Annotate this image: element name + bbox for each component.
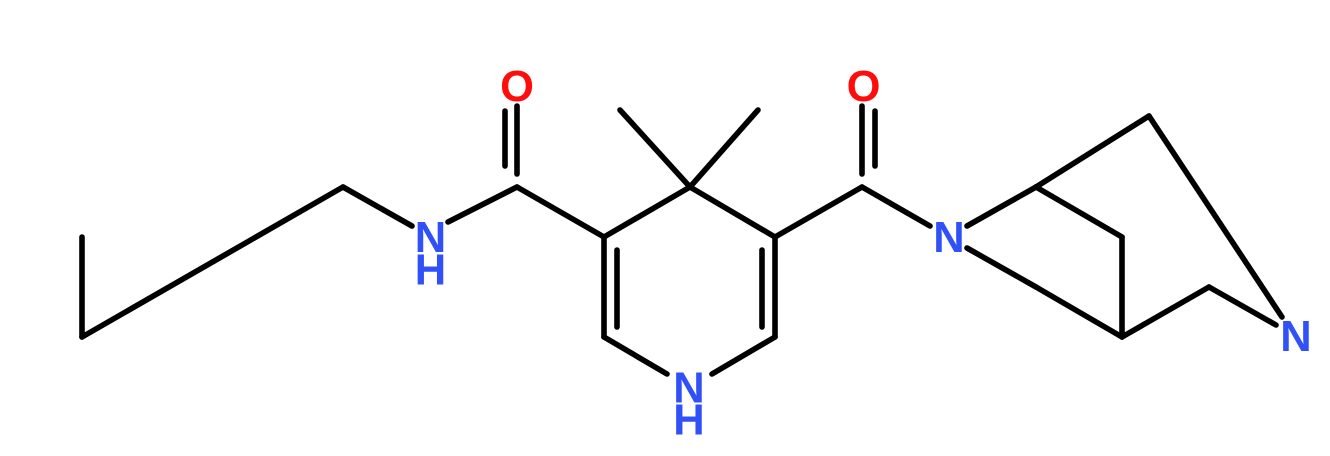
- wire: bond N(amide-left) to CH2 V1: [343, 187, 412, 226]
- wire: terminal methyl V4 up to V5: [79, 237, 85, 337]
- wire: ring left edge C3-C2 outer: [601, 237, 607, 337]
- wire: bond B to Z: [1122, 287, 1209, 337]
- svg-text:N: N: [1280, 313, 1311, 361]
- wire: straight chain T to N3 (2 collinear bonds): [1149, 116, 1282, 317]
- wire: bond N2 to G1: [967, 187, 1036, 226]
- wire: bond N2 to A: [967, 248, 1036, 287]
- svg-text:O: O: [847, 63, 881, 111]
- wire: bond Z to N3: [1209, 287, 1276, 325]
- wire: bond amide N to carbonyl C1: [448, 187, 517, 222]
- wire: C2c=O2 double bond main line: [859, 106, 865, 174]
- wire: ring bond NH bottom to C6: [712, 337, 775, 374]
- wire: bond H to B vertical: [1119, 237, 1125, 337]
- svg-text:H: H: [415, 247, 446, 295]
- svg-text:H: H: [673, 396, 704, 444]
- wire: bond C1 to ring C3: [517, 187, 604, 237]
- wire: bond C5 to carbonyl C2c: [775, 187, 862, 237]
- svg-text:O: O: [500, 63, 534, 111]
- wire: ring left edge inner double line: [614, 250, 620, 327]
- wire: C1=O1 double bond second line: [502, 111, 508, 166]
- wire: C4 methyl up-left: [620, 110, 690, 187]
- wire: C4 methyl up-right: [690, 110, 758, 187]
- wire: bond G1 to T: [1036, 116, 1149, 187]
- wire: bond C2c to N2: [862, 187, 930, 226]
- wire: ring right edge inner double line: [759, 250, 765, 327]
- wire: C2c=O2 double bond second line: [872, 111, 878, 166]
- wire: ring bond C5 to C4 apex: [690, 187, 775, 237]
- wire: ring bond C3 to C4 apex: [604, 187, 690, 237]
- wire: ring right edge C6-C5 outer: [772, 237, 778, 337]
- wire: bond A to B: [1036, 287, 1122, 337]
- wire: straight chain V1 to V4 (3 collinear bonds): [82, 187, 343, 337]
- svg-text:N: N: [933, 214, 964, 262]
- wire: C1=O1 double bond main line: [514, 106, 520, 174]
- wire: bond G1 to H: [1036, 187, 1122, 237]
- wire: ring bond C2 to NH bottom: [604, 337, 667, 374]
